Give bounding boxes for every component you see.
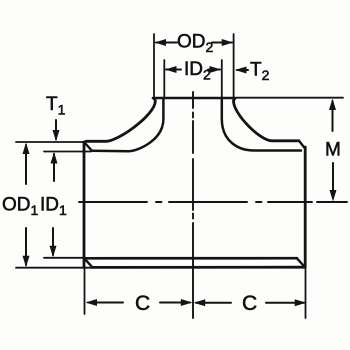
bottom-right bevel	[297, 258, 305, 267]
OD2 dimension line left segment	[156, 42, 177, 44]
arrowhead ID1 bottom (points down)	[50, 246, 57, 257]
arrowhead C right-left (points left)	[194, 299, 206, 306]
extension line OD2 left	[153, 34, 155, 97]
arrowhead M bottom (points down)	[330, 190, 337, 202]
extension line OD1 bottom	[16, 267, 93, 269]
svg-text:M: M	[325, 140, 341, 161]
T1 upper arrow tail	[55, 120, 57, 139]
extension line OD2 right	[233, 34, 235, 97]
arrowhead OD1 bottom (points down)	[23, 256, 30, 268]
extension line ID1 bottom	[44, 257, 85, 259]
extension line M top (from branch face)	[236, 97, 343, 99]
arrowhead OD1 top (points up)	[23, 143, 30, 155]
run top inner wall left + inner fillet + branch left inner wall	[92, 99, 163, 152]
OD1 dimension line lower segment	[25, 228, 27, 265]
OD2 dimension line right segment	[212, 42, 232, 44]
bottom outer wall	[92, 266, 305, 269]
OD1 dimension line upper segment	[25, 145, 27, 184]
arrowhead M top (points up)	[329, 99, 336, 111]
bottom-left bevel	[85, 259, 93, 268]
bottom inner bore line	[85, 257, 297, 260]
extension line OD1 top	[16, 141, 84, 143]
arrowhead T1/ID1 lower (points up)	[51, 152, 58, 164]
T2 arrow tail	[237, 69, 248, 71]
arrowhead OD2 left (points left)	[155, 39, 167, 46]
ID2 dimension line right segment	[208, 69, 220, 71]
M dimension line lower segment	[332, 163, 334, 198]
extension line ID2 right	[221, 60, 223, 97]
extension line C left (below left face)	[84, 268, 86, 314]
C right dimension line	[196, 302, 304, 304]
arrowhead C right-right (points right)	[295, 299, 307, 306]
run top outer wall left + outer fillet + branch left outer wall	[86, 99, 155, 142]
ID1 dimension line lower segment	[52, 228, 54, 255]
branch right inner wall + inner fillet + run top inner right	[222, 99, 301, 151]
extension line C right (below right face)	[305, 267, 307, 318]
tee body outer outline	[83, 142, 86, 268]
arrowhead ID2 left (points left)	[165, 66, 177, 73]
C left dimension line	[88, 302, 190, 304]
arrowhead C left-left (points left)	[86, 299, 98, 306]
arrowhead T1 upper (points down)	[53, 130, 60, 142]
svg-text:C: C	[135, 292, 150, 315]
vertical centerline	[192, 92, 194, 318]
arrowhead T2 (points left)	[235, 67, 247, 74]
arrowhead C left-right (points right)	[181, 299, 193, 306]
T1/ID1 lower arrow tail	[53, 154, 55, 181]
top-left bevel	[84, 142, 92, 151]
horizontal centerline	[79, 201, 347, 203]
top-right bevel	[299, 141, 305, 149]
branch end face	[153, 97, 235, 100]
M dimension line upper segment	[332, 101, 334, 131]
branch right outer wall + outer fillet + run top outer right	[234, 99, 300, 141]
extension line ID1 top	[44, 151, 91, 153]
arrowhead OD2 right (points right)	[222, 39, 234, 46]
svg-text:C: C	[242, 292, 257, 315]
arrowhead ID2 right (points right)	[210, 66, 222, 73]
right face	[304, 147, 307, 267]
ID2 dimension line left segment	[166, 69, 181, 71]
extension line ID2 left	[163, 60, 165, 97]
